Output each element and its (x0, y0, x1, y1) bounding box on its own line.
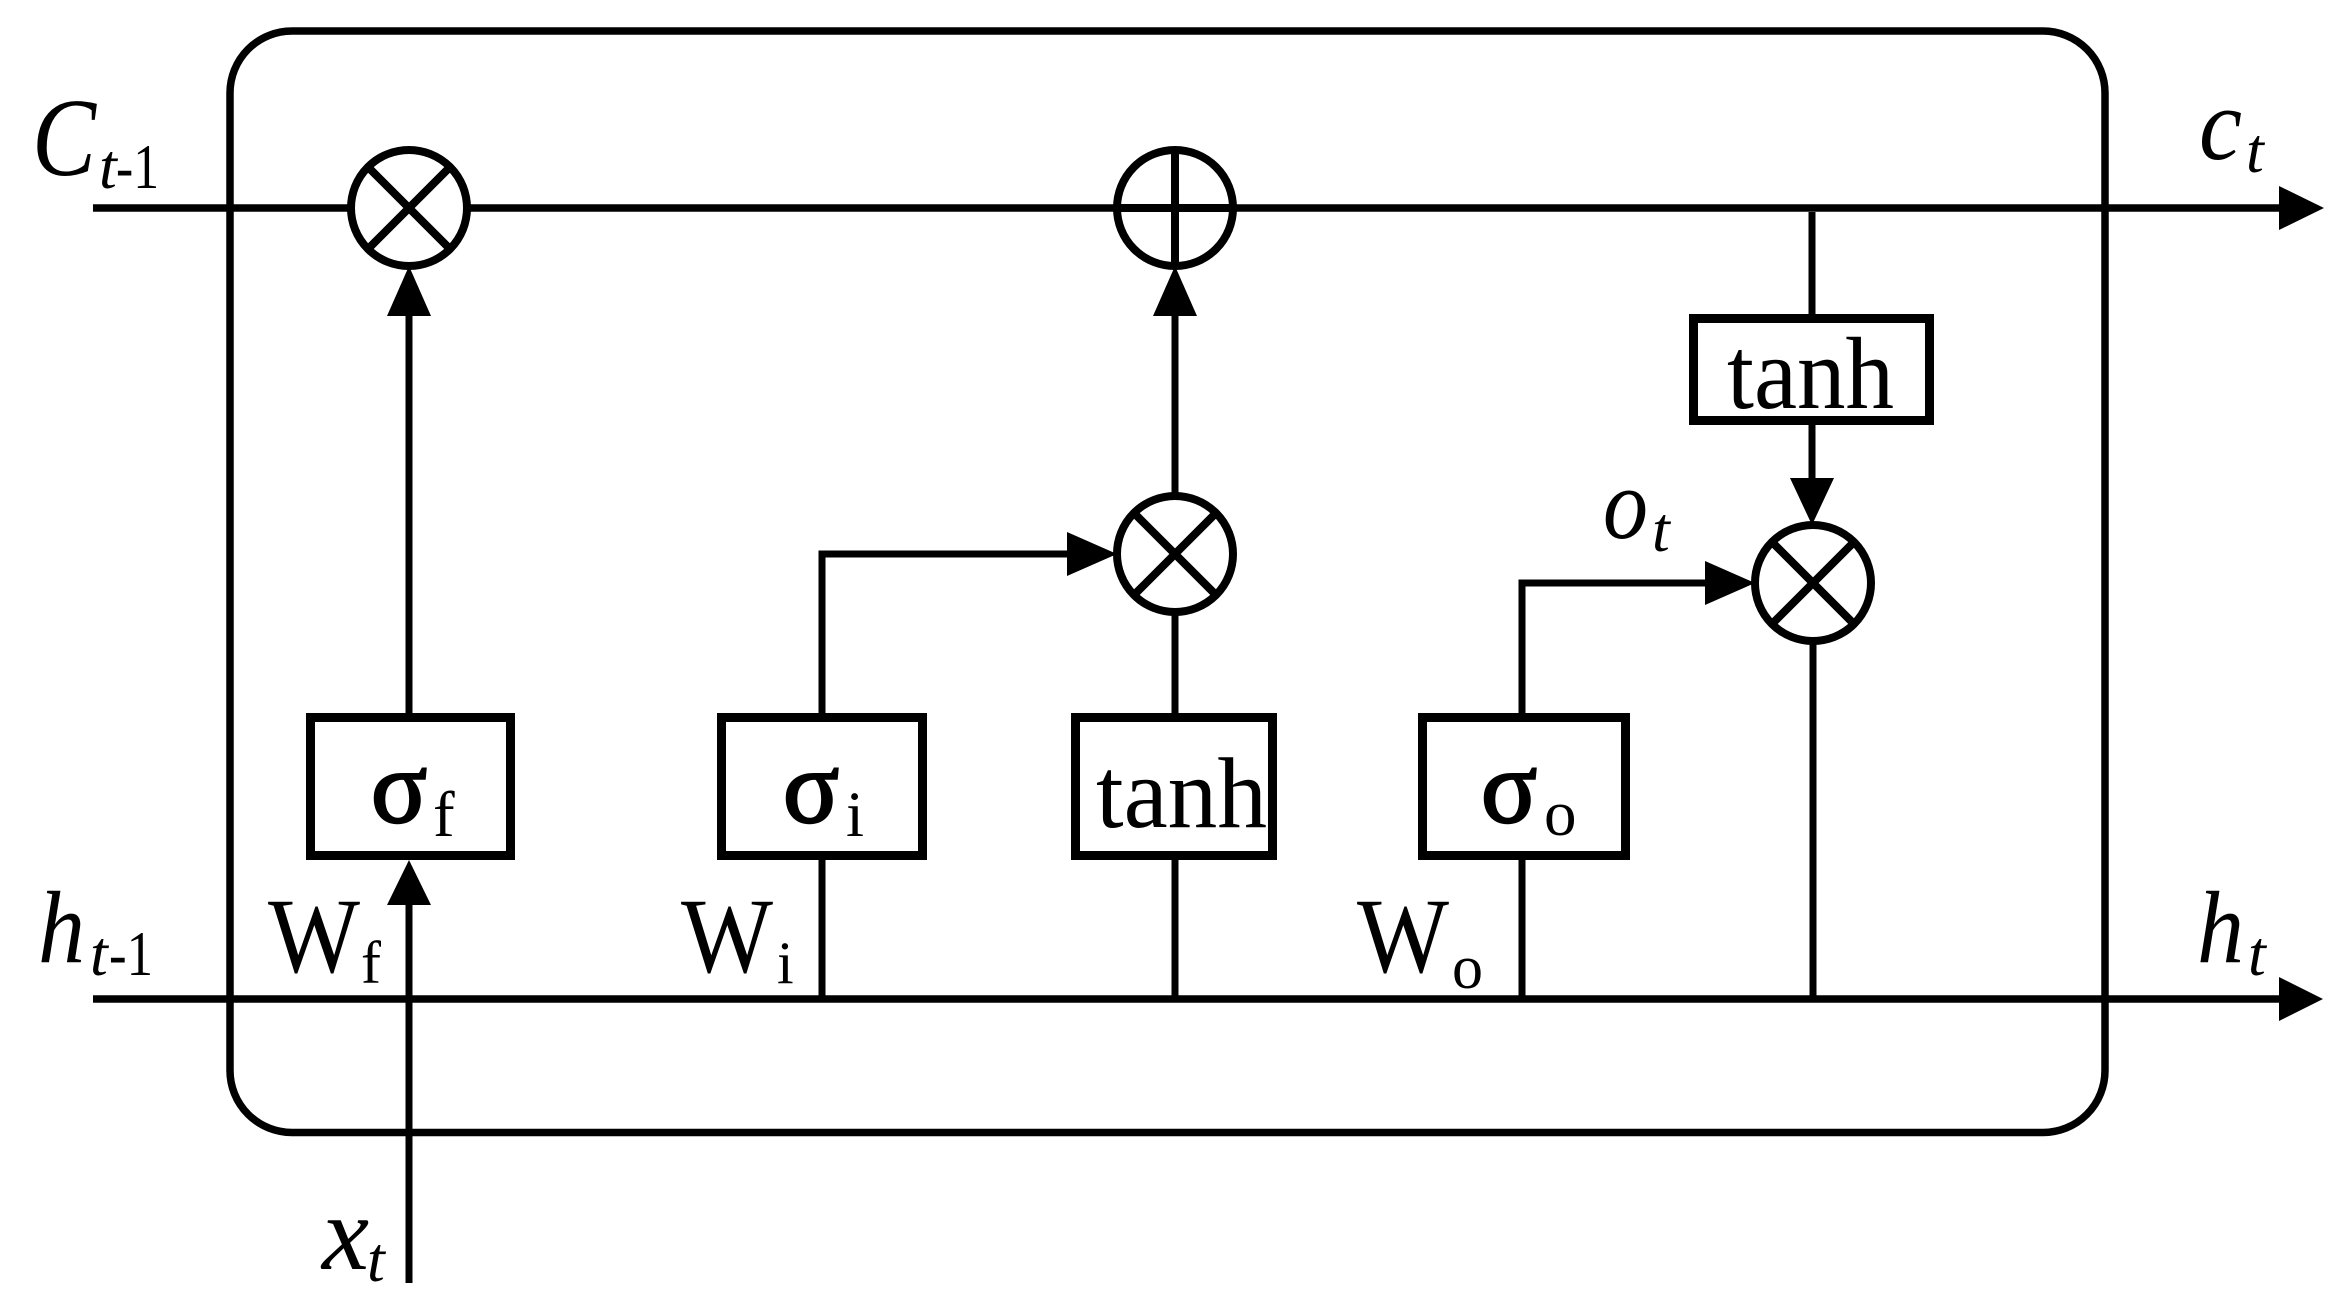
arrowhead into X1 (387, 266, 431, 316)
svg-text:x: x (320, 1175, 369, 1292)
wire sigma_i to h line (819, 860, 826, 999)
svg-text:h: h (2197, 871, 2244, 985)
svg-text:o: o (1544, 778, 1577, 850)
wire x_t input (406, 901, 413, 1283)
gate box tanh right (1694, 319, 1930, 421)
wire tanh to h line (1172, 860, 1179, 999)
svg-text:t: t (2248, 918, 2268, 989)
arrowhead into sigma_f (387, 860, 431, 905)
svg-text:i: i (846, 779, 864, 851)
arrowhead into X3 top (1790, 478, 1834, 525)
arrowhead into X2 (1067, 532, 1117, 576)
wire X3 to h line (1810, 641, 1817, 999)
cell boundary (230, 31, 2105, 1133)
arrowhead c_t output (2279, 186, 2324, 230)
wire c line to tanh right (1809, 212, 1816, 314)
svg-text:tanh: tanh (1096, 737, 1267, 849)
gate box sigma_i (722, 718, 923, 856)
svg-text:σ: σ (783, 730, 839, 845)
svg-text:o: o (1603, 448, 1648, 560)
svg-text:t: t (90, 918, 110, 989)
svg-text:i: i (777, 930, 794, 996)
svg-text:t: t (367, 1224, 387, 1295)
svg-text:W: W (1357, 878, 1449, 996)
wire hidden-state line h (93, 995, 2279, 1003)
wire sigma_o to h line (1519, 860, 1526, 999)
arrowhead h_t output (2279, 977, 2323, 1021)
svg-text:W: W (681, 878, 773, 996)
multiplier node X1 (forget gate) (351, 150, 467, 266)
adder node plus (1117, 150, 1233, 266)
arrowhead into plus (1153, 266, 1197, 316)
wire tanh right to X3 arrow (1809, 425, 1816, 478)
svg-text:f: f (361, 930, 381, 996)
svg-text:o: o (1452, 934, 1483, 1002)
gate box sigma_o (1423, 718, 1626, 856)
svg-text:c: c (2199, 68, 2242, 182)
multiplier node X3 (output gate) (1755, 525, 1871, 641)
arrowhead into X3 (1705, 561, 1755, 605)
svg-text:f: f (433, 779, 455, 851)
svg-text:-1: -1 (116, 131, 159, 202)
svg-text:t: t (1652, 494, 1672, 565)
gate box sigma_f (311, 718, 511, 856)
gate box tanh (cell candidate) (1076, 718, 1273, 856)
svg-text:C: C (32, 77, 98, 200)
svg-text:h: h (38, 871, 85, 985)
multiplier node X2 (input gate) (1117, 496, 1233, 612)
svg-text:-1: -1 (109, 918, 153, 989)
svg-text:σ: σ (371, 730, 427, 845)
wire sigma_o elbow to X3 (1522, 583, 1705, 713)
wire X2 to tanh box (1172, 612, 1179, 713)
svg-text:σ: σ (1481, 730, 1537, 845)
wire cell-state line C (93, 204, 2279, 212)
wire sigma_i elbow to X2 (822, 554, 1067, 713)
svg-text:t: t (2246, 115, 2266, 186)
svg-text:tanh: tanh (1727, 317, 1894, 431)
wire X2 to plus (1172, 312, 1179, 496)
wire sigma_f to X1 (406, 312, 413, 713)
svg-text:W: W (268, 878, 360, 996)
